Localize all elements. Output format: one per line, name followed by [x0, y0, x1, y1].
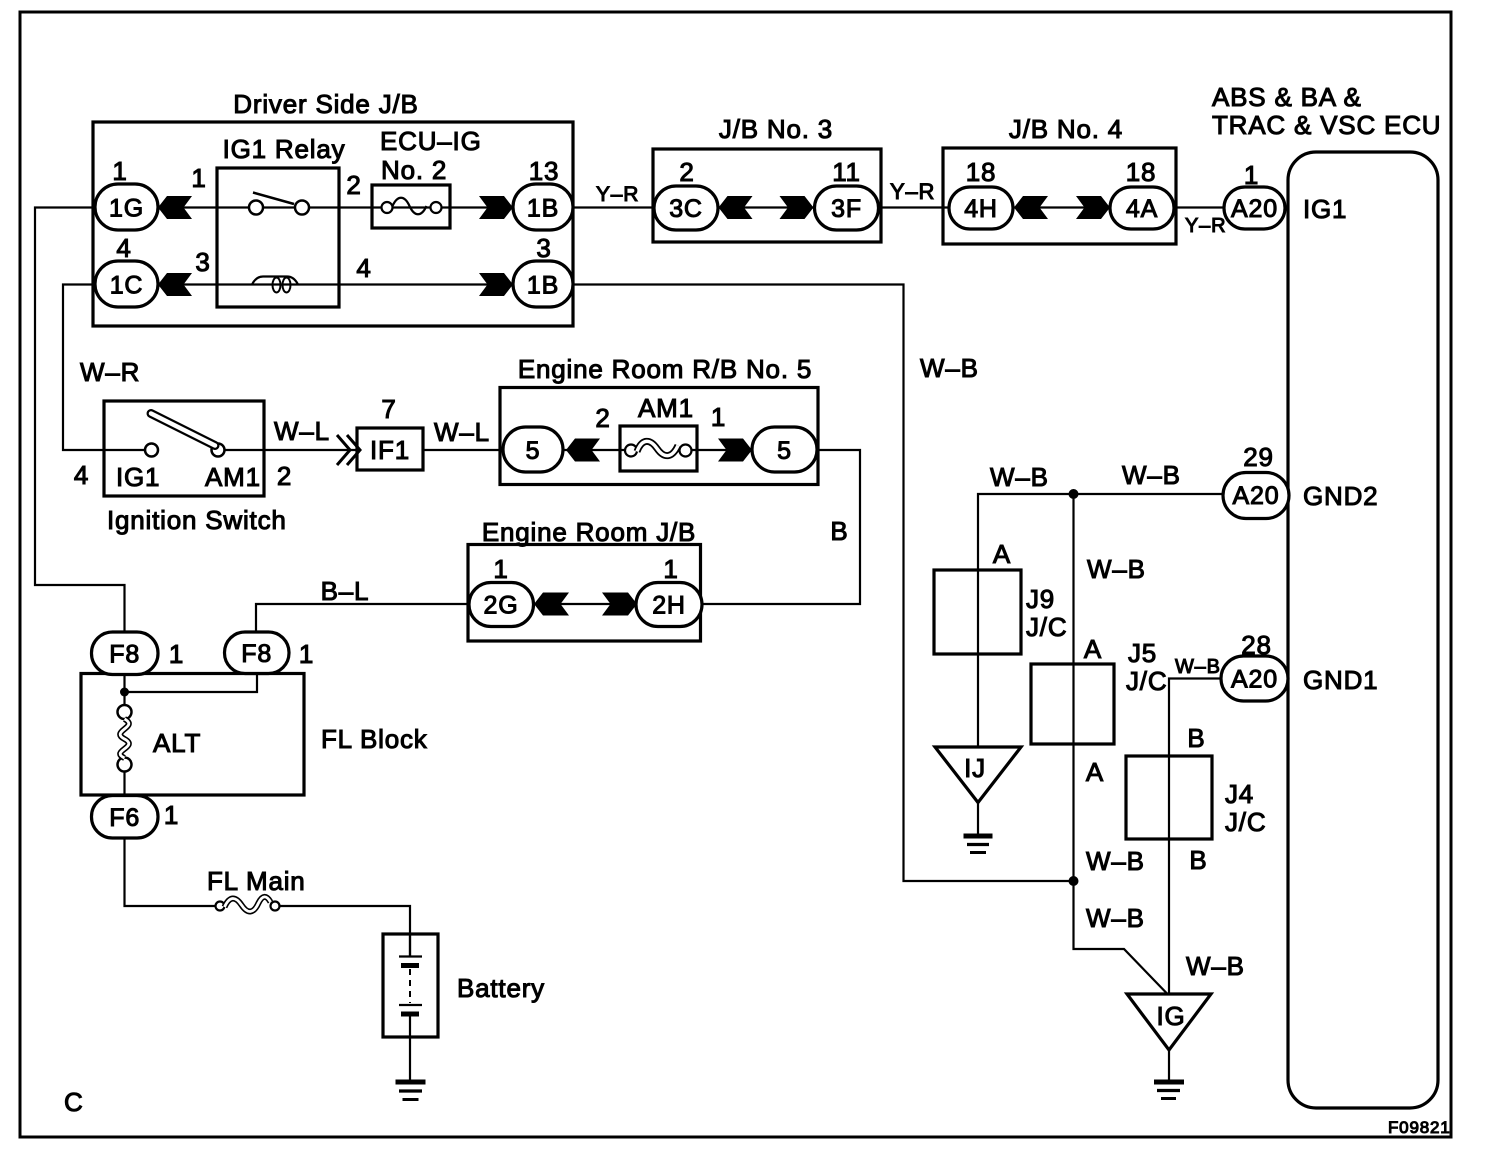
svg-text:GND1: GND1 [1303, 665, 1378, 695]
svg-text:A: A [993, 539, 1011, 569]
svg-text:29: 29 [1243, 442, 1274, 472]
svg-text:1: 1 [191, 163, 206, 193]
svg-text:A: A [1084, 634, 1102, 664]
svg-text:1: 1 [1244, 160, 1259, 190]
svg-text:4H: 4H [964, 195, 998, 223]
svg-text:F8: F8 [109, 641, 140, 669]
svg-text:2: 2 [277, 461, 292, 491]
svg-text:Engine Room R/B No. 5: Engine Room R/B No. 5 [518, 354, 812, 384]
svg-text:1B: 1B [527, 272, 559, 300]
svg-text:7: 7 [381, 394, 396, 424]
svg-text:F8: F8 [241, 640, 272, 668]
svg-text:B–L: B–L [321, 576, 370, 606]
svg-text:J9: J9 [1026, 584, 1055, 614]
svg-text:AM1: AM1 [205, 462, 261, 492]
svg-text:A20: A20 [1231, 195, 1278, 223]
svg-text:2: 2 [595, 403, 610, 433]
svg-text:1: 1 [299, 639, 314, 669]
svg-text:W–B: W–B [920, 353, 979, 383]
svg-text:FL Main: FL Main [207, 866, 306, 896]
svg-text:18: 18 [966, 157, 997, 187]
svg-text:Battery: Battery [457, 973, 545, 1003]
svg-text:No. 2: No. 2 [381, 155, 447, 185]
svg-text:IG: IG [1156, 1001, 1185, 1031]
svg-text:13: 13 [529, 156, 560, 186]
svg-text:A20: A20 [1233, 482, 1280, 510]
svg-text:4: 4 [74, 460, 89, 490]
svg-text:3F: 3F [831, 195, 862, 223]
svg-text:1: 1 [663, 554, 678, 584]
svg-text:5: 5 [526, 437, 541, 465]
svg-text:J/C: J/C [1225, 807, 1266, 837]
svg-text:W–B: W–B [1175, 656, 1221, 678]
svg-text:4: 4 [116, 233, 131, 263]
svg-text:A20: A20 [1231, 666, 1278, 694]
svg-text:F09821: F09821 [1388, 1118, 1450, 1137]
svg-text:W–B: W–B [990, 462, 1049, 492]
svg-text:28: 28 [1241, 630, 1272, 660]
svg-text:A: A [1086, 757, 1104, 787]
svg-text:B: B [1187, 723, 1205, 753]
svg-text:3: 3 [536, 233, 551, 263]
svg-text:J/B No. 4: J/B No. 4 [1009, 114, 1123, 144]
svg-text:W–B: W–B [1086, 846, 1145, 876]
svg-text:1G: 1G [109, 195, 144, 223]
svg-text:2G: 2G [484, 592, 519, 620]
svg-text:1C: 1C [110, 272, 144, 300]
svg-text:J/B No. 3: J/B No. 3 [719, 114, 833, 144]
svg-text:J4: J4 [1225, 779, 1254, 809]
svg-text:Y–R: Y–R [890, 179, 935, 204]
svg-text:IG1: IG1 [116, 462, 160, 492]
svg-text:3: 3 [195, 247, 210, 277]
svg-text:GND2: GND2 [1303, 481, 1378, 511]
svg-text:B: B [830, 516, 848, 546]
svg-text:Y–R: Y–R [1185, 215, 1226, 237]
svg-text:W–L: W–L [434, 417, 490, 447]
svg-text:11: 11 [832, 157, 861, 187]
svg-text:TRAC & VSC ECU: TRAC & VSC ECU [1212, 110, 1441, 140]
svg-text:1: 1 [164, 800, 179, 830]
svg-text:W–B: W–B [1186, 951, 1245, 981]
svg-text:4A: 4A [1126, 195, 1158, 223]
svg-text:Engine Room J/B: Engine Room J/B [482, 517, 696, 547]
svg-text:1B: 1B [527, 195, 559, 223]
svg-text:ECU–IG: ECU–IG [380, 126, 482, 156]
svg-text:Ignition Switch: Ignition Switch [107, 505, 287, 535]
svg-text:IJ: IJ [964, 753, 986, 783]
svg-text:J5: J5 [1128, 638, 1157, 668]
svg-text:F6: F6 [109, 804, 140, 832]
svg-text:W–B: W–B [1122, 460, 1181, 490]
svg-text:ABS & BA &: ABS & BA & [1212, 82, 1362, 112]
svg-text:5: 5 [777, 437, 792, 465]
svg-text:2H: 2H [652, 592, 686, 620]
svg-text:4: 4 [356, 253, 371, 283]
svg-text:AM1: AM1 [638, 393, 694, 423]
svg-text:W–L: W–L [274, 416, 330, 446]
svg-text:18: 18 [1126, 157, 1157, 187]
svg-text:2: 2 [346, 170, 361, 200]
svg-text:J/C: J/C [1026, 612, 1067, 642]
svg-text:2: 2 [679, 157, 694, 187]
svg-text:3C: 3C [669, 195, 703, 223]
svg-text:Y–R: Y–R [596, 183, 639, 206]
svg-text:IG1: IG1 [1303, 194, 1347, 224]
svg-text:W–B: W–B [1087, 554, 1146, 584]
svg-text:J/C: J/C [1126, 666, 1167, 696]
svg-text:1: 1 [112, 156, 127, 186]
svg-text:1: 1 [493, 554, 508, 584]
svg-text:Driver Side J/B: Driver Side J/B [233, 89, 418, 119]
svg-text:B: B [1189, 845, 1207, 875]
svg-text:W–B: W–B [1086, 903, 1145, 933]
svg-text:W–R: W–R [80, 357, 140, 387]
svg-text:IG1 Relay: IG1 Relay [223, 134, 346, 164]
svg-text:1: 1 [711, 402, 726, 432]
svg-text:FL Block: FL Block [321, 724, 428, 754]
svg-text:C: C [64, 1087, 84, 1117]
svg-text:IF1: IF1 [370, 435, 410, 465]
svg-text:1: 1 [169, 639, 184, 669]
svg-text:ALT: ALT [153, 728, 201, 758]
